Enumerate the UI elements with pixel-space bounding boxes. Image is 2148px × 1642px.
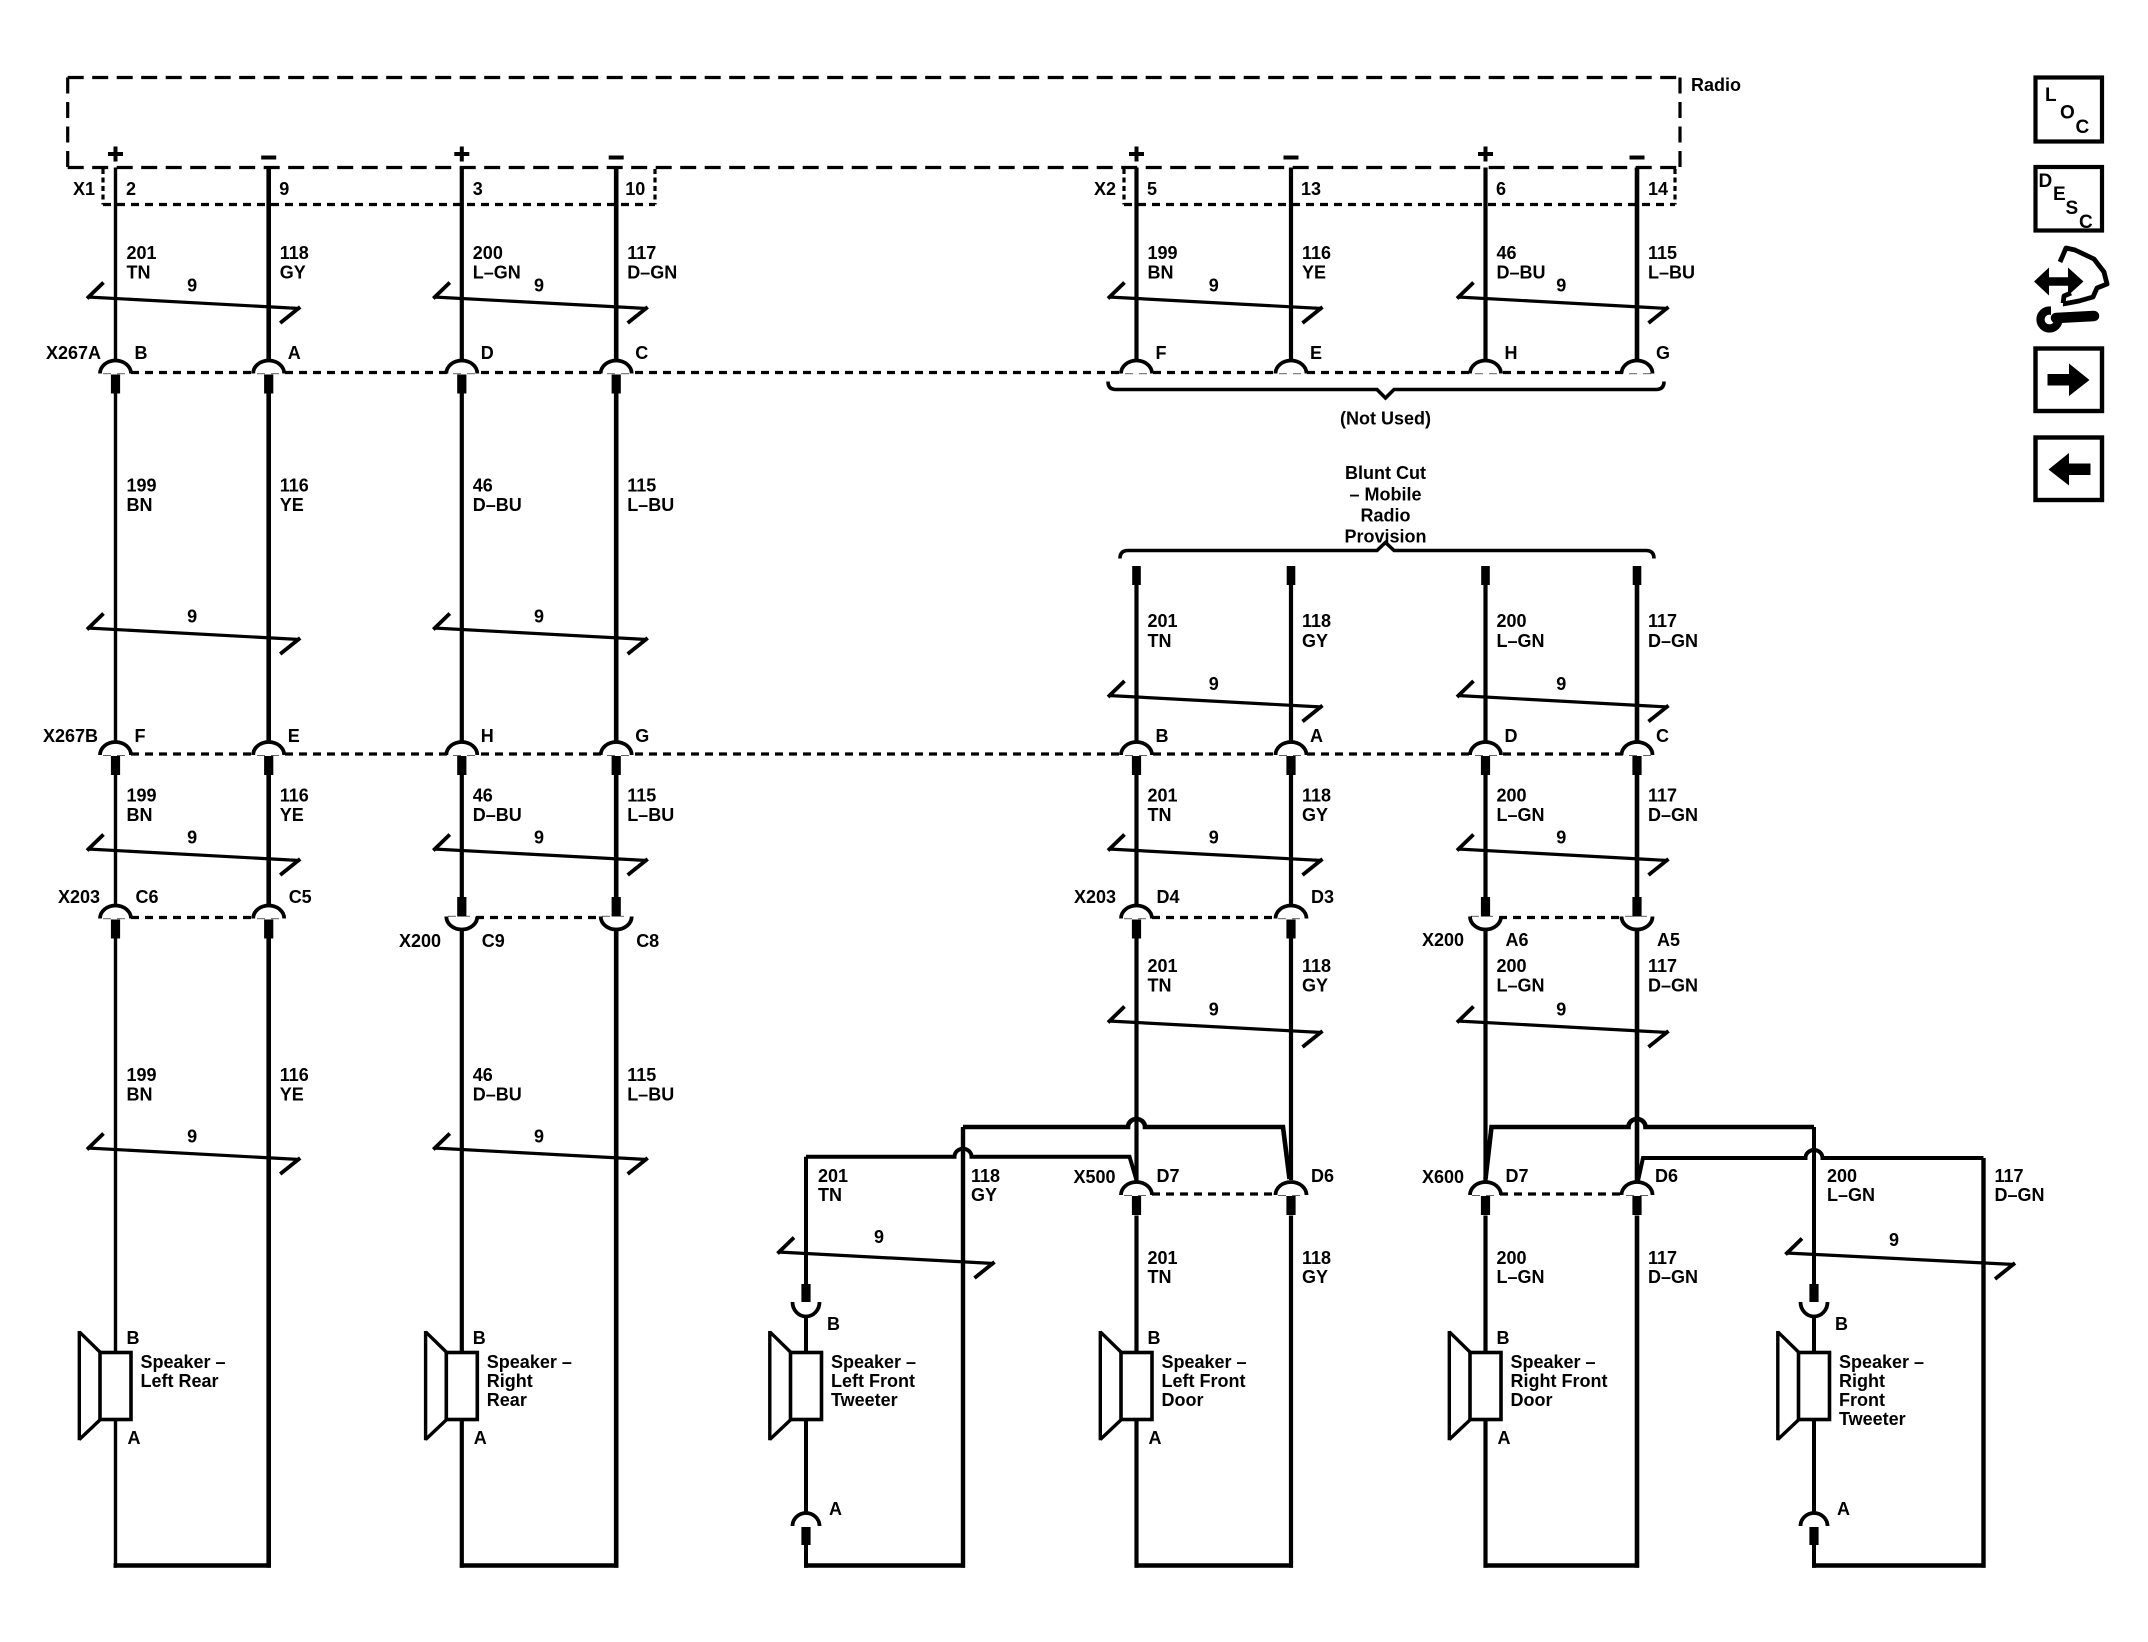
speaker Right Rear name label (487, 1352, 572, 1410)
polarity - mark at x=616.2 (609, 156, 624, 160)
wire into left tweeter B (804, 1317, 808, 1353)
svg-text:9: 9 (534, 607, 544, 627)
connector X200 pin A5 (1622, 897, 1681, 950)
svg-text:TN: TN (1148, 976, 1172, 996)
connector X267B pin E (253, 726, 300, 775)
wire below right tweeter (1812, 1420, 1816, 1514)
wire label 200 L-GN (1827, 1166, 1875, 1205)
wire label 117 (1648, 611, 1698, 651)
svg-text:D–GN: D–GN (1648, 631, 1698, 651)
svg-text:A: A (829, 1499, 842, 1519)
wire left tweeter A to loop (804, 1545, 808, 1568)
svg-text:B: B (473, 1328, 486, 1348)
svg-text:116: 116 (1302, 243, 1331, 263)
wire 199 BN to left rear speaker (114, 937, 117, 1353)
svg-text:B: B (135, 343, 148, 363)
svg-text:A: A (288, 343, 301, 363)
svg-text:L–GN: L–GN (1497, 631, 1545, 651)
polarity + mark at x=461.8 (454, 147, 469, 162)
svg-text:13: 13 (1301, 179, 1321, 199)
wire label 200 (1497, 1248, 1545, 1287)
wire from radio pin at x=115.5 (114, 168, 117, 361)
speaker Left Rear name label (141, 1352, 226, 1391)
svg-text:L–GN: L–GN (1497, 1267, 1545, 1287)
wire label 118 (1302, 956, 1331, 996)
svg-text:Door: Door (1511, 1390, 1553, 1410)
twisted pair symbol (1108, 674, 1323, 722)
LOC legend icon (2036, 78, 2103, 142)
wire label 199 (1148, 243, 1178, 283)
svg-text:117: 117 (1648, 1248, 1677, 1268)
svg-text:X500: X500 (1073, 1167, 1115, 1187)
svg-text:H: H (481, 726, 494, 746)
svg-text:201: 201 (127, 243, 157, 263)
wire label 199 (127, 786, 157, 826)
wire 117 D-GN to loop (1635, 1216, 1640, 1568)
svg-text:Blunt Cut: Blunt Cut (1345, 463, 1426, 483)
wire 200 L-GN tweeter drop (1812, 1127, 1816, 1284)
svg-text:Right: Right (487, 1371, 533, 1391)
wire loop bottom (1484, 1563, 1640, 1568)
svg-text:X203: X203 (1074, 887, 1116, 907)
wire label 201 (1148, 611, 1178, 651)
wire x=616.2 X267B to X200 (614, 773, 619, 898)
wire label 118 (1302, 1248, 1331, 1287)
svg-text:9: 9 (874, 1227, 884, 1247)
speaker - Right Front Door icon (1449, 1331, 1501, 1440)
svg-text:9: 9 (534, 276, 544, 296)
wire label 201 (1148, 956, 1178, 996)
svg-text:9: 9 (1556, 1000, 1566, 1020)
speaker - Left Rear icon (79, 1331, 131, 1440)
svg-text:117: 117 (1648, 611, 1677, 631)
connector X267A pin F (not used) (1121, 343, 1167, 374)
blunt-cut wire end marker x=1291.0 (1287, 566, 1296, 585)
svg-text:2: 2 (126, 179, 136, 199)
speaker Right Front Tweeter pin A label (1837, 1499, 1850, 1519)
connector X200 pin C9 (446, 897, 505, 951)
svg-text:C: C (2079, 212, 2093, 233)
svg-text:3: 3 (473, 179, 483, 199)
pin number 13 (1301, 179, 1321, 199)
svg-text:199: 199 (127, 476, 157, 496)
wire from radio pin at x=1291.0 (1289, 168, 1293, 361)
connector X267B pin G (601, 726, 650, 775)
wire loop bottom (804, 1563, 965, 1568)
twisted pair symbol (1457, 276, 1669, 324)
svg-text:118: 118 (1302, 1248, 1331, 1268)
pin number 5 (1147, 179, 1157, 199)
svg-text:Tweeter: Tweeter (831, 1390, 898, 1410)
wire label 199 (127, 1065, 157, 1105)
svg-text:L: L (2045, 85, 2057, 106)
connector X500 pin D7 (1121, 1166, 1180, 1215)
connector X267B pin D (1470, 726, 1518, 775)
wire label 116 (280, 476, 309, 516)
connector X267B pin C (1622, 726, 1670, 775)
svg-text:L–GN: L–GN (473, 263, 521, 283)
wire 200 L-GN to right front door speaker (1483, 1216, 1487, 1353)
svg-text:9: 9 (187, 1127, 197, 1147)
svg-text:Speaker –: Speaker – (487, 1352, 572, 1372)
svg-text:9: 9 (1209, 828, 1219, 848)
connector X500 pin D6 (1276, 1166, 1335, 1215)
wire below speaker x=1485.5 (1483, 1420, 1487, 1568)
wire label 116 (280, 1065, 309, 1105)
pin number 3 (473, 179, 483, 199)
wire from radio pin at x=1485.5 (1483, 168, 1487, 361)
svg-text:Left Front: Left Front (1162, 1371, 1246, 1391)
connector X2 label (1094, 179, 1116, 199)
wire from radio pin at x=1637.0 (1635, 168, 1640, 361)
wire right tweeter A to loop (1812, 1545, 1816, 1568)
svg-text:C6: C6 (136, 887, 159, 907)
svg-text:C5: C5 (289, 887, 312, 907)
blunt-cut wire end marker x=1637.0 (1633, 566, 1642, 585)
svg-text:6: 6 (1496, 179, 1506, 199)
connector X267A pin B (100, 343, 148, 394)
polarity + mark at x=1136.5 (1129, 147, 1144, 162)
connector X267B label (43, 726, 98, 746)
connector X267B pin H (446, 726, 494, 775)
wire 118 GY tweeter drop (961, 1127, 965, 1568)
svg-text:118: 118 (1302, 956, 1331, 976)
svg-text:199: 199 (127, 786, 157, 806)
speaker Right Front Tweeter name label (1839, 1352, 1924, 1429)
svg-text:9: 9 (534, 1127, 544, 1147)
svg-text:A: A (1310, 726, 1323, 746)
wire x=1637.0 X267B to X200 (1635, 773, 1640, 898)
wire 115 L-BU to loop (614, 930, 619, 1568)
svg-text:200: 200 (473, 243, 503, 263)
harness repair legend icon (2034, 248, 2107, 329)
wire label 46 (473, 786, 522, 826)
pin number 14 (1648, 179, 1668, 199)
wire into right tweeter B (1812, 1317, 1816, 1353)
svg-text:Speaker –: Speaker – (141, 1352, 226, 1372)
svg-text:115: 115 (627, 786, 656, 806)
connector X600 dashed line (1472, 1192, 1652, 1195)
connector X200 pin A6 (1470, 897, 1529, 950)
svg-text:10: 10 (625, 179, 645, 199)
wire 117 D-GN to X600 D6 (1635, 930, 1640, 1184)
svg-text:A: A (1149, 1428, 1162, 1448)
blunt-cut wire end marker x=1136.5 (1132, 566, 1141, 585)
connector X267A dashed line (103, 371, 1655, 374)
wire loop bottom (1812, 1563, 1986, 1568)
svg-text:Left Rear: Left Rear (141, 1371, 219, 1391)
svg-text:D7: D7 (1506, 1166, 1529, 1186)
svg-text:D3: D3 (1311, 887, 1334, 907)
connector X200 label (1422, 930, 1464, 950)
wire label 199 (127, 476, 157, 516)
svg-text:Speaker –: Speaker – (831, 1352, 916, 1372)
svg-text:D6: D6 (1655, 1166, 1678, 1186)
svg-text:118: 118 (280, 243, 309, 263)
svg-text:F: F (135, 726, 146, 746)
connector X2 dashed body (1124, 169, 1675, 205)
polarity + mark at x=115.5 (108, 147, 123, 162)
wire below left tweeter (804, 1420, 808, 1514)
svg-text:L–BU: L–BU (627, 1085, 674, 1105)
svg-text:GY: GY (1302, 976, 1328, 996)
svg-text:G: G (1656, 343, 1670, 363)
svg-text:X200: X200 (1422, 930, 1464, 950)
svg-text:Rear: Rear (487, 1390, 527, 1410)
connector X267A pin D (446, 343, 494, 394)
svg-text:D–GN: D–GN (627, 263, 677, 283)
speaker - Right Rear icon (426, 1331, 478, 1440)
speaker Left Front Door pin A label (1149, 1428, 1162, 1448)
wire x=461.8 X267A to X267B (460, 394, 464, 743)
svg-text:GY: GY (971, 1185, 997, 1205)
connector X500 label (1073, 1167, 1115, 1187)
wire 201 TN tweeter drop (804, 1157, 808, 1284)
svg-text:D7: D7 (1157, 1166, 1180, 1186)
previous-page arrow icon (2036, 438, 2103, 501)
wire label 117 D-GN (1995, 1166, 2045, 1205)
svg-text:D–GN: D–GN (1648, 805, 1698, 825)
svg-text:D–BU: D–BU (473, 805, 522, 825)
svg-text:Radio: Radio (1691, 75, 1741, 95)
svg-text:117: 117 (627, 243, 656, 263)
twisted pair symbol (87, 607, 300, 655)
svg-text:9: 9 (187, 828, 197, 848)
svg-text:C8: C8 (636, 931, 659, 951)
svg-text:G: G (635, 726, 649, 746)
pin number 10 (625, 179, 645, 199)
connector X203 dashed line (103, 916, 284, 919)
svg-text:D–BU: D–BU (473, 1085, 522, 1105)
svg-text:9: 9 (187, 276, 197, 296)
svg-text:GY: GY (1302, 631, 1328, 651)
wire 118 GY to loop (1289, 1216, 1293, 1568)
svg-text:BN: BN (1148, 263, 1174, 283)
twisted pair symbol (433, 607, 647, 655)
svg-text:E: E (2053, 184, 2066, 205)
svg-text:116: 116 (280, 476, 309, 496)
twisted pair symbol (1457, 674, 1669, 722)
speaker - Right Front Tweeter icon (1778, 1331, 1830, 1440)
speaker Left Front Door name label (1162, 1352, 1247, 1410)
svg-text:A5: A5 (1657, 930, 1680, 950)
svg-text:9: 9 (1556, 828, 1566, 848)
Radio component dashed outline box (68, 78, 1680, 168)
wire below speaker x=461.8 (460, 1420, 464, 1568)
wire label 200 (1497, 786, 1545, 826)
twisted pair symbol (1457, 1000, 1669, 1048)
svg-text:200: 200 (1497, 611, 1527, 631)
svg-text:B: B (1148, 1328, 1161, 1348)
svg-text:X1: X1 (73, 179, 95, 199)
connector X203 pin D3 (1276, 887, 1335, 939)
polarity - mark at x=268.7 (261, 156, 276, 160)
svg-text:46: 46 (1497, 243, 1517, 263)
svg-text:GY: GY (1302, 805, 1328, 825)
wire from radio pin at x=616.2 (614, 168, 619, 361)
svg-text:Front: Front (1839, 1390, 1885, 1410)
wire x=1136.5 X267B to X203 (1134, 773, 1138, 905)
pin number 6 (1496, 179, 1506, 199)
wire 118 GY to X500 D6 (1289, 937, 1293, 1180)
twisted pair symbol (87, 828, 300, 876)
svg-text:C: C (635, 343, 648, 363)
svg-text:Tweeter: Tweeter (1839, 1409, 1906, 1429)
svg-text:E: E (1310, 343, 1322, 363)
svg-text:D: D (1505, 726, 1518, 746)
speaker Left Front Tweeter pin A label (829, 1499, 842, 1519)
svg-text:117: 117 (1648, 956, 1677, 976)
speaker Right Rear pin B label (473, 1328, 486, 1348)
svg-text:L–BU: L–BU (627, 805, 674, 825)
connector X267A pin A (253, 343, 301, 394)
svg-text:Speaker –: Speaker – (1511, 1352, 1596, 1372)
connector X203 pin D4 (1121, 887, 1180, 939)
speaker Right Front Door pin A label (1498, 1428, 1511, 1448)
polarity - mark at x=1637.0 (1630, 156, 1645, 160)
wire label 115 (627, 1065, 674, 1105)
svg-text:O: O (2060, 103, 2075, 124)
svg-text:46: 46 (473, 786, 493, 806)
svg-text:9: 9 (1556, 674, 1566, 694)
svg-text:L–GN: L–GN (1497, 805, 1545, 825)
svg-text:200: 200 (1497, 956, 1527, 976)
svg-text:BN: BN (127, 805, 153, 825)
speaker Right Front Door pin B label (1497, 1328, 1510, 1348)
svg-text:X267A: X267A (46, 343, 101, 363)
wire label 115 (627, 476, 674, 516)
svg-text:C: C (1656, 726, 1669, 746)
svg-text:46: 46 (473, 476, 493, 496)
wire x=115.5 X267A to X267B (114, 394, 117, 743)
svg-text:116: 116 (280, 1065, 309, 1085)
svg-text:115: 115 (627, 1065, 656, 1085)
svg-text:117: 117 (1995, 1166, 2024, 1186)
svg-text:D–GN: D–GN (1995, 1185, 2045, 1205)
wire label 117 (1648, 786, 1698, 826)
connector X267A label (46, 343, 101, 363)
svg-text:B: B (827, 1314, 840, 1334)
wire from radio pin at x=268.7 (266, 168, 271, 361)
svg-text:Right: Right (1839, 1371, 1885, 1391)
wire x=268.7 X267B to X203 (266, 773, 271, 905)
wire label 46 (1497, 243, 1546, 283)
svg-text:GY: GY (1302, 1267, 1328, 1287)
brace for blunt cut wires (1120, 543, 1654, 559)
svg-text:9: 9 (1209, 1000, 1219, 1020)
twisted pair symbol (87, 1127, 300, 1175)
svg-text:S: S (2066, 198, 2079, 219)
wire label 118 (1302, 786, 1331, 826)
svg-text:TN: TN (1148, 631, 1172, 651)
connector X200 dashed line (1471, 916, 1652, 919)
connector X267B pin A (1276, 726, 1324, 775)
wire 117 D-GN tweeter drop (1981, 1158, 1985, 1568)
wire x=1136.5 blunt cut to X267B (1134, 585, 1138, 742)
wire 201 TN to X500 D7 (1134, 937, 1138, 1181)
speaker Left Front Tweeter pin B label (827, 1314, 840, 1334)
twisted pair symbol (778, 1227, 995, 1278)
svg-text:E: E (288, 726, 300, 746)
svg-text:H: H (1505, 343, 1518, 363)
svg-text:118: 118 (1302, 611, 1331, 631)
svg-text:9: 9 (1556, 276, 1566, 296)
wire x=461.8 X267B to X200 (460, 773, 464, 898)
wire loop bottom (1135, 1563, 1294, 1568)
svg-text:199: 199 (127, 1065, 157, 1085)
connector X203 pin C5 (253, 887, 312, 939)
svg-text:B: B (1497, 1328, 1510, 1348)
svg-text:A: A (128, 1428, 141, 1448)
svg-text:L–GN: L–GN (1827, 1185, 1875, 1205)
wire tap 200 L-GN to right front tweeter (upper) (1486, 1119, 1815, 1179)
wire x=115.5 X267B to X203 (114, 773, 117, 905)
Radio label (1691, 75, 1741, 95)
connector X200 pin C8 (601, 897, 660, 951)
connector X267B pin F (100, 726, 146, 775)
connector X1 dashed body (103, 169, 655, 205)
svg-text:X2: X2 (1094, 179, 1116, 199)
svg-text:B: B (1835, 1314, 1848, 1334)
tweeter A inline connector (right) (1801, 1513, 1828, 1545)
connector X267A pin C (601, 343, 649, 394)
connector X1 label (73, 179, 95, 199)
wire label 201 (127, 243, 157, 283)
tweeter B inline connector (left) (793, 1284, 820, 1317)
wire 46 D-BU to right rear speaker (460, 930, 464, 1353)
wire label 200 (1497, 611, 1545, 651)
svg-text:201: 201 (1148, 786, 1178, 806)
speaker Right Front Tweeter pin B label (1835, 1314, 1848, 1334)
wire 201 TN to left front door speaker (1134, 1216, 1138, 1353)
wire label 200 (1497, 956, 1545, 996)
brace for not-used pins (1108, 382, 1664, 399)
svg-text:X200: X200 (399, 931, 441, 951)
twisted pair symbol (1108, 828, 1323, 876)
svg-text:9: 9 (1889, 1230, 1899, 1250)
svg-text:116: 116 (280, 786, 309, 806)
wire label 117 (1648, 956, 1698, 996)
svg-text:201: 201 (1148, 956, 1178, 976)
wire label 115 (1648, 243, 1695, 283)
svg-text:9: 9 (187, 607, 197, 627)
svg-text:9: 9 (534, 828, 544, 848)
svg-text:L–BU: L–BU (1648, 263, 1695, 283)
svg-text:201: 201 (1148, 611, 1178, 631)
wire loop bottom (114, 1563, 271, 1568)
svg-text:GY: GY (280, 263, 306, 283)
svg-text:9: 9 (1209, 674, 1219, 694)
connector X267A pin G (not used) (1622, 343, 1671, 374)
svg-text:B: B (127, 1328, 140, 1348)
wire x=1291.0 blunt cut to X267B (1289, 585, 1293, 742)
svg-text:A: A (1837, 1499, 1850, 1519)
tweeter B inline connector (right) (1801, 1284, 1828, 1317)
speaker Right Front Door name label (1511, 1352, 1608, 1410)
svg-text:Speaker –: Speaker – (1839, 1352, 1924, 1372)
wire x=1485.5 X267B to X200 (1483, 773, 1487, 898)
twisted pair symbol (433, 1127, 647, 1175)
speaker Left Rear pin A label (128, 1428, 141, 1448)
blunt-cut wire end marker x=1485.5 (1481, 566, 1490, 585)
connector X267B dashed line (103, 752, 1655, 755)
svg-text:TN: TN (1148, 805, 1172, 825)
connector X600 pin D6 (1622, 1166, 1679, 1215)
svg-text:YE: YE (1302, 263, 1326, 283)
svg-text:A6: A6 (1506, 930, 1529, 950)
wire below speaker x=1136.5 (1134, 1420, 1138, 1568)
twisted pair symbol (87, 276, 300, 324)
